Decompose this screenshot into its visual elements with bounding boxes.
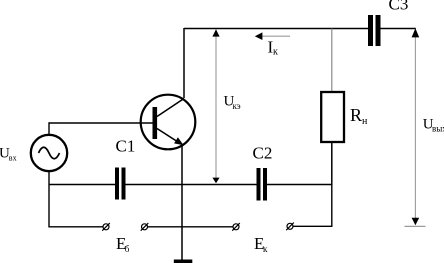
wire collector vertical	[183, 28, 185, 98]
label C2	[253, 143, 273, 162]
wire bottom rail to C1	[49, 184, 115, 186]
wire C1 to C2	[126, 184, 257, 186]
svg-text:R: R	[350, 105, 362, 125]
svg-text:C3: C3	[389, 0, 409, 14]
terminal Eb left	[102, 223, 110, 231]
label Ik	[268, 38, 279, 58]
svg-text:к: к	[273, 47, 278, 58]
terminal Eb right	[141, 223, 149, 231]
arrow Uke	[212, 29, 219, 183]
wire source top stub	[48, 122, 50, 135]
label Uout	[423, 116, 444, 133]
label Ek	[254, 234, 268, 254]
arrow Ik	[255, 32, 290, 40]
svg-text:кэ: кэ	[233, 101, 241, 111]
terminal Ek left	[232, 223, 240, 231]
terminal Ek right	[286, 223, 294, 231]
AC source G1	[31, 135, 67, 171]
capacitor C1	[115, 168, 126, 200]
wire source bottom stub	[48, 171, 50, 228]
svg-text:б: б	[125, 244, 130, 254]
svg-text:вых: вых	[432, 123, 444, 133]
label C3	[389, 0, 409, 14]
wire top collector rail	[184, 28, 368, 30]
label Rn	[350, 105, 368, 127]
capacitor C2	[257, 168, 268, 201]
wire emitter vertical	[181, 144, 183, 260]
wire bottom row right	[293, 184, 332, 226]
resistor Rn	[321, 92, 344, 142]
wire base	[49, 122, 153, 124]
wire below resistor	[331, 142, 333, 185]
wire C2 to load column	[267, 184, 333, 186]
label Uke	[224, 94, 241, 111]
svg-text:вх: вх	[9, 154, 17, 163]
arrow Uout	[405, 28, 426, 226]
svg-text:C1: C1	[116, 137, 136, 156]
wire bottom row middle	[148, 226, 233, 228]
ground	[174, 260, 193, 263]
label Uin	[0, 146, 17, 163]
capacitor C3	[368, 15, 381, 46]
transistor VT1	[141, 95, 196, 150]
wire bottom row left	[49, 226, 103, 228]
wire top rail after C3	[381, 28, 416, 30]
label Eb	[116, 234, 130, 254]
wire load column upper (thin)	[331, 29, 333, 93]
svg-text:к: к	[263, 244, 268, 254]
label C1	[116, 137, 136, 156]
svg-text:н: н	[362, 116, 368, 127]
svg-text:C2: C2	[253, 143, 273, 162]
